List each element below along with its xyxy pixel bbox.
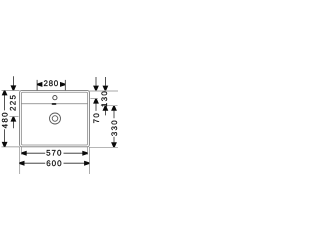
dimension 70 top arrow xyxy=(93,86,99,91)
extension lines below bottom-right corner xyxy=(88,147,90,174)
tick for 130 and 330 xyxy=(101,105,118,107)
dimension 280 extension right xyxy=(64,80,66,91)
svg-text:130: 130 xyxy=(100,90,109,107)
dimension 225 line tails xyxy=(12,76,14,85)
svg-text:570: 570 xyxy=(46,149,62,158)
extension lines below bottom-left corner xyxy=(19,147,21,174)
extension line bottom-right xyxy=(89,146,118,148)
faucet hole xyxy=(53,96,57,100)
dimension 570 left arrow xyxy=(22,151,27,156)
dimension 600 right arrow xyxy=(84,161,89,166)
dimension 70 line tails xyxy=(95,77,97,86)
dimension 600 line xyxy=(24,162,45,164)
svg-text:280: 280 xyxy=(43,79,58,88)
tick for 225 xyxy=(10,116,19,118)
svg-text:70: 70 xyxy=(92,112,101,124)
dimension 225 top arrow xyxy=(11,85,17,90)
dimension 480 line xyxy=(4,95,6,111)
dimension 330 line xyxy=(113,111,115,119)
dimension 280 extension left xyxy=(36,80,38,91)
dimension 130 line tails xyxy=(104,77,106,86)
dimension 280 left arrow xyxy=(37,82,42,87)
deck line xyxy=(21,103,87,105)
dimension 570 line xyxy=(26,152,45,154)
svg-text:480: 480 xyxy=(1,111,10,128)
dimension 480 top arrow xyxy=(2,91,8,96)
tick for 70 xyxy=(90,98,97,100)
dimension 600 left arrow xyxy=(19,161,24,166)
dimension 130 top arrow xyxy=(103,86,109,91)
dimension 330 top arrow xyxy=(111,106,117,111)
extension line top-left xyxy=(2,89,20,91)
drain outer circle xyxy=(50,113,61,124)
overflow slot xyxy=(52,103,57,105)
dimension 130 bottom arrow xyxy=(103,106,109,111)
dimension 330 bottom arrow xyxy=(111,142,117,147)
dimension 225 bottom arrow xyxy=(11,117,17,122)
svg-text:600: 600 xyxy=(46,159,62,168)
svg-text:330: 330 xyxy=(110,119,119,136)
extension line bottom-left xyxy=(2,146,20,148)
washbasin outer edge xyxy=(20,90,90,146)
washbasin inner rim xyxy=(21,92,87,145)
drain inner circle xyxy=(52,116,58,122)
svg-text:225: 225 xyxy=(9,94,18,111)
dimension 70 bottom arrow xyxy=(93,99,99,104)
extension line top-right xyxy=(89,90,118,92)
dimension 480 bottom arrow xyxy=(2,142,8,147)
dimension 280 right arrow xyxy=(60,82,65,87)
dimension 570 right arrow xyxy=(82,151,87,156)
